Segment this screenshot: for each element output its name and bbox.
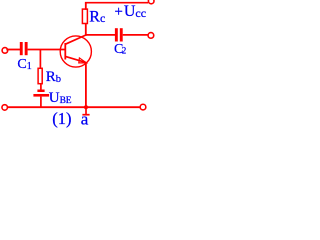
svg-text:C2: C2: [114, 42, 126, 57]
capacitor C2: [115, 28, 123, 41]
svg-text:Rc: Rc: [89, 9, 105, 26]
svg-text:(1): (1): [52, 109, 71, 128]
wire C2 to output terminal: [123, 34, 149, 36]
transistor emitter lead: [65, 56, 86, 63]
wire Rb to battery: [40, 84, 42, 90]
svg-text:Rb: Rb: [46, 69, 61, 85]
node a tick: [82, 107, 89, 115]
svg-text:+Ucc: +Ucc: [114, 3, 146, 20]
junction dot node a: [84, 105, 88, 109]
transistor collector lead: [65, 35, 86, 44]
wire collector up to Rc: [85, 23, 87, 36]
transistor Q1 circle: [60, 36, 91, 67]
wire Rc to top rail: [85, 3, 87, 10]
resistor Rb: [38, 68, 42, 83]
svg-text:a: a: [81, 110, 89, 128]
bottom-left terminal: [2, 105, 8, 111]
wire input to C1: [6, 49, 20, 51]
bottom rail wire: [8, 106, 140, 108]
wire down to Rb: [39, 50, 41, 69]
output terminal: [148, 33, 154, 39]
svg-text:C1: C1: [17, 57, 31, 72]
top rail wire: [85, 2, 148, 4]
wire collector to C2: [86, 34, 115, 36]
battery UBE: [33, 90, 49, 108]
svg-text:UBE: UBE: [49, 90, 72, 106]
resistor Rc: [82, 9, 87, 23]
+Ucc terminal: [148, 0, 154, 4]
bottom-right terminal: [140, 104, 146, 110]
input terminal (left): [2, 48, 8, 54]
wire emitter down: [85, 63, 87, 106]
capacitor C1: [20, 42, 28, 55]
transistor base bar: [64, 43, 66, 60]
wire C1 to base: [28, 49, 66, 51]
